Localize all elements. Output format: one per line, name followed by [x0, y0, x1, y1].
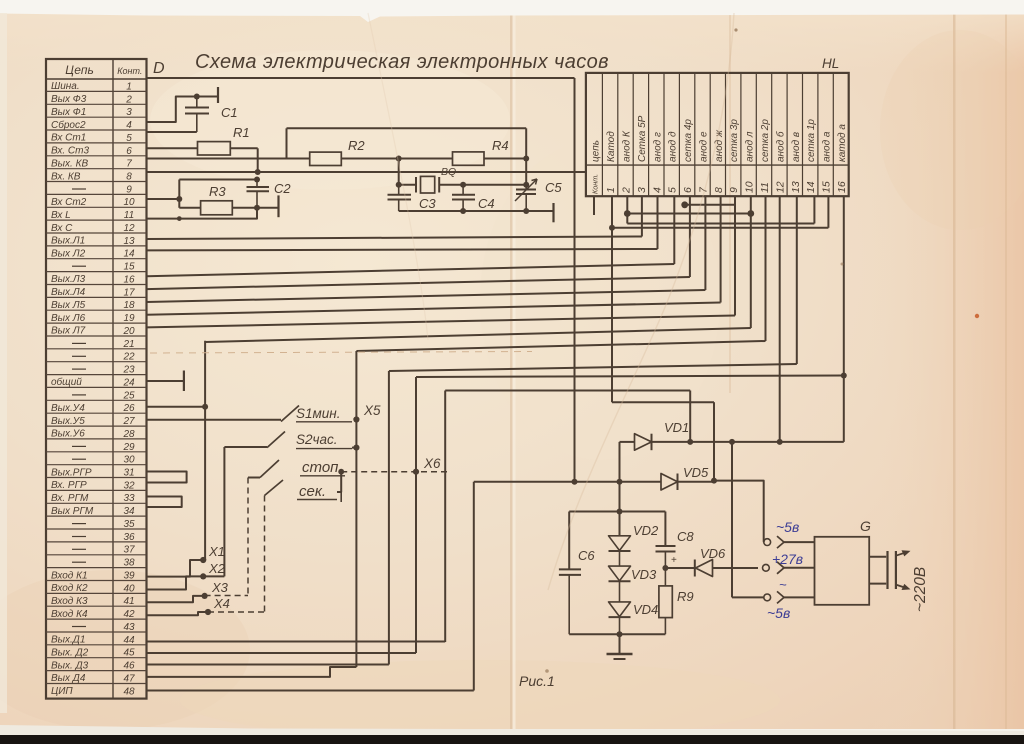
terminal circle ~5V bottom: [764, 594, 771, 601]
resistor R2: [310, 152, 342, 165]
svg-text:Рис.1: Рис.1: [519, 673, 555, 689]
node stop out: [338, 469, 344, 475]
svg-text:9: 9: [728, 187, 740, 193]
wire ground stub: [619, 634, 621, 653]
svg-text:Вых Л6: Вых Л6: [51, 313, 86, 324]
svg-text:VD4: VD4: [633, 602, 658, 617]
svg-text:14: 14: [805, 181, 817, 193]
svg-text:Х2: Х2: [208, 561, 226, 576]
svg-text:G: G: [860, 518, 871, 534]
diode VD5: [661, 474, 678, 491]
wire pin1 to display area: [147, 77, 575, 79]
wire R1 junction drop: [257, 148, 259, 172]
svg-text:15: 15: [123, 262, 135, 273]
node rail bottom: [617, 631, 623, 637]
svg-text:С3: С3: [419, 196, 436, 211]
wire pin42 to X4: [147, 612, 209, 615]
wire col14 riser: [813, 196, 815, 223]
wire R3 top branch: [179, 179, 257, 181]
wire stop contact stub: [248, 477, 260, 479]
wire pin26 top run to col10: [205, 328, 751, 342]
wire col10 riser: [750, 196, 752, 328]
node C2 top: [254, 177, 260, 183]
svg-text:Вых Л7: Вых Л7: [51, 326, 86, 337]
wire R3 left vertical: [178, 180, 180, 208]
capacitor C1: [196, 97, 198, 108]
wire R4 out: [484, 158, 526, 160]
svg-text:Вых Ф3: Вых Ф3: [51, 94, 87, 105]
wire X6 dash continue: [421, 471, 447, 473]
svg-text:48: 48: [123, 686, 135, 697]
svg-text:41: 41: [123, 596, 134, 607]
svg-text:Вход К3: Вход К3: [51, 596, 88, 607]
node V1 bottom: [572, 479, 578, 485]
wire Vd top run: [445, 390, 690, 392]
svg-text:VD2: VD2: [633, 523, 659, 538]
wire osc top left drop: [286, 128, 288, 158]
resistor R1: [198, 142, 231, 155]
wire pin4 to C1: [147, 97, 219, 123]
svg-text:35: 35: [123, 519, 135, 530]
svg-text:Конт.: Конт.: [591, 174, 600, 194]
switch S1 lever: [281, 406, 299, 422]
node C8 bottom: [662, 565, 668, 571]
wire pin16 to display col5: [147, 264, 675, 276]
svg-text:11: 11: [759, 182, 771, 193]
wire col16 riser: [843, 196, 845, 442]
wire pin46 run: [147, 664, 389, 666]
svg-text:анод а: анод а: [822, 131, 833, 162]
wire osc top rail: [287, 127, 527, 129]
vertical Ve: [473, 482, 475, 691]
resistor R3: [201, 201, 233, 215]
svg-text:R1: R1: [233, 125, 250, 140]
wire X3 dashed: [205, 595, 248, 597]
wire R3 lead right: [232, 207, 257, 209]
svg-text:Вых.Л1: Вых.Л1: [51, 236, 85, 247]
terminal bar C2 net: [277, 195, 279, 217]
svg-text:+27в: +27в: [772, 551, 803, 567]
svg-text:сетка 2р: сетка 2р: [760, 119, 771, 162]
wire osc bottom rail: [399, 210, 554, 212]
wire tie col2-col14: [627, 223, 814, 225]
wire X4 dashed: [208, 611, 265, 613]
terminal circle +27V: [763, 564, 770, 571]
svg-text:Шина.: Шина.: [51, 81, 80, 92]
wire pin14 to display col4: [147, 249, 658, 250]
wire S2 contact: [352, 447, 356, 449]
svg-text:45: 45: [123, 648, 135, 659]
IC D pin/circuit table frame: [46, 59, 147, 699]
svg-text:17: 17: [123, 287, 135, 298]
svg-text:Х6: Х6: [423, 456, 441, 471]
svg-text:Х3: Х3: [211, 580, 229, 595]
svg-text:S2час.: S2час.: [296, 432, 338, 447]
wire VD5 line: [474, 481, 661, 483]
wire Vb top run to col13: [389, 364, 797, 371]
wire col4 riser: [657, 196, 659, 249]
wire stop dashed drop: [247, 478, 249, 596]
wire pin39 to X1: [147, 560, 204, 577]
svg-text:Вых Д4: Вых Д4: [51, 673, 86, 684]
svg-text:Вых Л2: Вых Л2: [51, 249, 86, 260]
svg-text:22: 22: [122, 352, 135, 363]
svg-text:сек.: сек.: [299, 483, 326, 500]
wire bracket drop to VD5: [713, 402, 715, 480]
power unit G: [815, 537, 870, 605]
svg-text:R2: R2: [348, 138, 365, 153]
capacitor C6: [559, 568, 581, 570]
svg-text:С8: С8: [677, 529, 694, 544]
svg-text:Вх. РГМ: Вх. РГМ: [51, 493, 89, 504]
node BQ right: [460, 182, 466, 188]
node R3 out: [254, 205, 260, 211]
svg-text:30: 30: [123, 455, 135, 466]
svg-text:13: 13: [123, 236, 135, 247]
node X5: [353, 416, 359, 422]
wire X1 feeder vertical: [204, 341, 206, 560]
svg-text:Вх. РГР: Вх. РГР: [51, 480, 87, 491]
svg-text:47: 47: [123, 673, 135, 684]
svg-text:D: D: [153, 60, 165, 77]
node BQ left: [396, 182, 402, 188]
svg-text:20: 20: [122, 326, 135, 337]
wire pin40 to X2: [147, 576, 204, 589]
capacitor C4: [462, 185, 464, 195]
svg-text:+: +: [671, 555, 677, 566]
svg-text:~5в: ~5в: [776, 519, 799, 535]
wire osc right drop: [525, 128, 527, 158]
terminal bar pin2 net: [217, 87, 219, 103]
svg-text:26: 26: [122, 403, 135, 414]
svg-text:VD6: VD6: [700, 546, 726, 561]
node pin10: [176, 196, 182, 202]
wire pin45 run: [147, 652, 417, 654]
svg-text:~: ~: [779, 577, 787, 592]
svg-text:31: 31: [123, 468, 134, 479]
svg-text:Схема электрическая электрон: Схема электрическая электронных часов: [195, 51, 609, 73]
svg-text:12: 12: [774, 181, 786, 193]
svg-text:Вых.РГР: Вых.РГР: [51, 467, 92, 478]
display HL table frame: [586, 73, 849, 196]
svg-text:С4: С4: [478, 196, 495, 211]
svg-text:3: 3: [126, 107, 132, 118]
wire Va top run to col11: [356, 341, 765, 351]
svg-text:Вых.У5: Вых.У5: [51, 416, 85, 427]
svg-text:38: 38: [123, 558, 135, 569]
svg-text:25: 25: [122, 390, 135, 401]
node osc right top: [523, 156, 529, 162]
wire pin11 to C2 net: [147, 208, 258, 219]
svg-text:42: 42: [123, 609, 135, 620]
svg-text:28: 28: [122, 429, 135, 440]
svg-text:1: 1: [605, 187, 617, 193]
svg-text:16: 16: [836, 181, 848, 193]
switch S2 lever: [267, 432, 285, 448]
svg-text:С5: С5: [545, 180, 562, 195]
svg-text:анод л: анод л: [745, 131, 756, 162]
wire V1 pin1 drop to VD5 line: [574, 78, 576, 482]
node pin26: [202, 404, 208, 410]
node Vc col16: [841, 373, 847, 379]
wire C8 branch top: [664, 512, 666, 547]
svg-text:Вых РГМ: Вых РГМ: [51, 506, 94, 517]
svg-text:Вых. Д3: Вых. Д3: [51, 660, 89, 671]
vertical Vb: [388, 371, 390, 665]
node Vd VD1 line: [687, 439, 693, 445]
capacitor C3: [398, 185, 400, 195]
wire col13 riser: [796, 196, 798, 364]
wire BQ row: [399, 184, 416, 186]
node X2: [200, 573, 206, 579]
terminal circle ~5V top: [764, 539, 771, 546]
svg-text:40: 40: [123, 583, 135, 594]
svg-text:сетка 4р: сетка 4р: [683, 119, 694, 162]
svg-text:Вх. Ст3: Вх. Ст3: [51, 146, 89, 157]
wire col6 riser: [689, 196, 691, 277]
node BQ top: [396, 156, 402, 162]
zener diode VD3: [609, 566, 631, 581]
svg-text:VD5: VD5: [683, 465, 709, 480]
svg-text:Сетка 5Р: Сетка 5Р: [637, 115, 648, 162]
svg-text:С6: С6: [578, 548, 595, 563]
svg-text:Вх С: Вх С: [51, 223, 73, 234]
svg-text:общий: общий: [51, 376, 82, 388]
svg-text:34: 34: [123, 506, 135, 517]
svg-text:R9: R9: [677, 589, 694, 604]
resistor R9: [659, 586, 672, 618]
node pin11 R3 branch: [177, 216, 182, 221]
resistor R4: [453, 152, 485, 165]
svg-text:36: 36: [123, 532, 135, 543]
svg-text:С2: С2: [274, 181, 291, 196]
svg-text:R4: R4: [492, 138, 509, 153]
diode VD1: [635, 434, 652, 451]
wire col3 riser: [641, 196, 643, 236]
node X6: [413, 469, 419, 475]
node C5 bottom: [523, 208, 529, 214]
wire tie col6-col9: [685, 204, 735, 206]
svg-text:Вых. Д2: Вых. Д2: [51, 648, 89, 659]
zener diode VD4: [609, 602, 631, 617]
capacitor C8 polar: [656, 545, 676, 547]
wire pin10 stub: [147, 198, 180, 200]
wire col9 riser: [734, 196, 736, 315]
node tie col10: [747, 210, 754, 217]
node R1-pin8: [255, 169, 261, 175]
svg-text:4: 4: [651, 187, 663, 193]
svg-text:сетка 3р: сетка 3р: [729, 119, 740, 162]
switch stop lever: [260, 460, 279, 478]
wire C6 branch top: [568, 512, 570, 570]
wire display header stub: [593, 196, 595, 215]
svg-text:стоп: стоп: [302, 459, 338, 476]
svg-text:анод в: анод в: [791, 132, 802, 162]
node col1 tie: [609, 225, 615, 231]
node C5 top: [523, 182, 529, 188]
svg-text:Х4: Х4: [213, 596, 230, 611]
wire pin8 to display edge: [147, 171, 586, 173]
svg-text:11: 11: [124, 210, 134, 221]
vertical Vd: [444, 391, 446, 643]
node col12 VD1 line: [777, 439, 783, 445]
wire col7 riser: [704, 196, 706, 290]
node C4 bottom: [460, 208, 466, 214]
wire VD1 node down to ~5V bottom: [731, 442, 733, 598]
svg-text:Х1: Х1: [208, 544, 225, 559]
svg-text:S1мин.: S1мин.: [296, 406, 340, 421]
svg-text:1: 1: [126, 81, 132, 92]
switch sek lever: [265, 480, 284, 496]
svg-text:анод К: анод К: [621, 130, 632, 162]
svg-text:27: 27: [122, 416, 135, 427]
wire pin27 to S1: [147, 419, 282, 421]
wire col1 bracket: [612, 401, 714, 403]
wire pin5 to C1 bottom: [147, 131, 197, 133]
svg-text:12: 12: [123, 223, 135, 234]
svg-text:~5в: ~5в: [767, 605, 790, 621]
node tie col2: [624, 210, 631, 217]
node S2 out: [353, 445, 359, 451]
wire pin13 to display col3: [147, 237, 642, 240]
svg-text:44: 44: [123, 635, 135, 646]
wire R3 lead left: [179, 207, 200, 209]
svg-text:13: 13: [790, 181, 802, 193]
terminal bar common: [183, 371, 185, 392]
chip table rows with pin numbers: [46, 90, 147, 92]
svg-text:Вх Ст2: Вх Ст2: [51, 197, 87, 208]
wire R2 to R4: [341, 158, 452, 160]
crystal BQ: [415, 177, 417, 193]
svg-text:32: 32: [123, 480, 135, 491]
svg-text:43: 43: [123, 622, 135, 633]
node X1: [200, 557, 206, 563]
svg-text:15: 15: [821, 181, 833, 193]
wire pin20 to display col9: [147, 316, 736, 328]
wire col2 riser: [626, 196, 628, 223]
wire pin19 to display col8: [147, 303, 721, 315]
trimmer capacitor C5: [525, 185, 527, 190]
wire VD1 anode wire: [620, 441, 635, 443]
svg-text:С1: С1: [221, 105, 238, 120]
svg-text:Вых Ф1: Вых Ф1: [51, 107, 86, 118]
svg-text:ЦИП: ЦИП: [51, 686, 73, 697]
svg-text:21: 21: [122, 339, 134, 350]
svg-text:катод а: катод а: [837, 124, 848, 162]
svg-text:Катод: Катод: [606, 131, 617, 162]
svg-text:8: 8: [713, 187, 725, 193]
wire sek dashed drop: [264, 496, 266, 613]
svg-text:R3: R3: [209, 184, 226, 199]
svg-text:анод е: анод е: [698, 131, 709, 162]
wire stop to X6 dashed: [341, 471, 416, 473]
svg-text:23: 23: [122, 365, 135, 376]
node X3: [202, 593, 208, 599]
node VD1 anode branch: [617, 479, 623, 485]
svg-text:8: 8: [126, 172, 132, 183]
wire pin17 to display col6: [147, 277, 690, 289]
node C1 top: [194, 94, 200, 100]
plug 220V: [869, 556, 886, 558]
wire sek bracket: [337, 472, 341, 492]
svg-text:Вых.Д1: Вых.Д1: [51, 635, 85, 646]
svg-text:анод г: анод г: [652, 132, 663, 162]
wire pin26 riser: [147, 406, 206, 408]
svg-text:39: 39: [123, 571, 135, 582]
wire rect bottom rail: [569, 633, 665, 635]
wire pin44 run: [147, 641, 446, 643]
vertical Va X5 line: [355, 351, 357, 667]
wire col12 riser: [779, 196, 781, 442]
zener diode VD2: [609, 536, 631, 551]
wire pins33-34 loop: [147, 497, 182, 508]
svg-text:Вход К1: Вход К1: [51, 570, 88, 581]
svg-text:Вых.Л3: Вых.Л3: [51, 274, 86, 285]
svg-text:Х5: Х5: [363, 403, 381, 418]
wire pin47 run: [147, 667, 357, 677]
wire tie col1-col15: [612, 227, 828, 229]
capacitor C2: [256, 180, 258, 188]
svg-text:Вых.Л4: Вых.Л4: [51, 287, 86, 298]
svg-text:Вход К4: Вход К4: [51, 609, 88, 620]
svg-text:5: 5: [667, 187, 679, 193]
svg-text:37: 37: [123, 545, 135, 556]
wire col15 riser: [827, 196, 829, 228]
svg-text:9: 9: [126, 184, 132, 195]
wire VD5 out to ~5V top: [714, 481, 764, 542]
svg-text:Вых.У6: Вых.У6: [51, 429, 85, 440]
wire tie col2-col10: [627, 213, 751, 215]
svg-text:Вход К2: Вход К2: [51, 583, 88, 594]
wire pins31-32 loop: [147, 472, 187, 483]
wire col11 riser: [765, 196, 767, 341]
wire C2 bar stub: [257, 207, 279, 209]
svg-text:Цепь: Цепь: [65, 63, 94, 77]
wire pin41 to X3: [147, 596, 205, 602]
wire Vc top run to col16: [416, 376, 844, 378]
connector arrows: [777, 536, 784, 548]
wire col1 riser: [611, 196, 613, 402]
svg-text:46: 46: [123, 661, 135, 672]
svg-text:6: 6: [682, 187, 694, 193]
svg-text:VD3: VD3: [631, 567, 657, 582]
diode VD6: [694, 560, 696, 577]
vertical Vc X6 line: [415, 377, 417, 653]
svg-text:19: 19: [123, 313, 135, 324]
svg-text:Вых Л5: Вых Л5: [51, 300, 86, 311]
wire Vd drop to VD1 line: [689, 391, 691, 442]
node col8 VD5 junction: [711, 478, 717, 484]
svg-text:Сброс2: Сброс2: [51, 119, 86, 131]
svg-text:анод б: анод б: [774, 131, 786, 162]
svg-text:Вх L: Вх L: [51, 210, 71, 221]
svg-text:Вых.У4: Вых.У4: [51, 403, 85, 414]
svg-text:VD1: VD1: [664, 420, 689, 435]
wire zener stack top: [619, 512, 621, 536]
node tie col6: [681, 201, 688, 208]
wire pin48 run: [147, 690, 474, 692]
svg-text:18: 18: [123, 300, 135, 311]
svg-text:2: 2: [620, 187, 632, 194]
svg-text:анод д: анод д: [668, 131, 679, 162]
node rail top: [617, 509, 623, 515]
wire pin6 to R1: [147, 147, 198, 149]
svg-text:Вых. КВ: Вых. КВ: [51, 158, 88, 169]
svg-text:10: 10: [744, 181, 756, 193]
svg-text:~220В: ~220В: [912, 567, 929, 612]
svg-text:24: 24: [122, 377, 135, 388]
wire X2 riser: [203, 575, 224, 577]
